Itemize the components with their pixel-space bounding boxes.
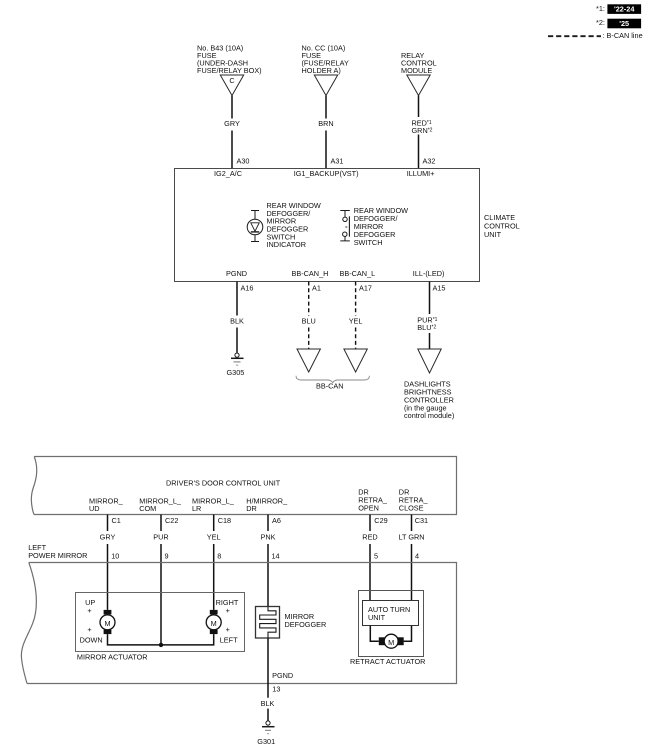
svg-text:RED: RED: [362, 533, 377, 542]
svg-text:BLK: BLK: [261, 699, 275, 708]
svg-text:*2:: *2:: [596, 18, 605, 27]
legend B-CAN line key: [548, 31, 643, 40]
svg-text:C22: C22: [165, 516, 178, 525]
wire BLU A1 (B-CAN): [302, 282, 316, 350]
fuse No. CC (10A) label: [302, 44, 349, 76]
svg-text:UD: UD: [89, 504, 100, 513]
svg-text:BLK: BLK: [230, 317, 244, 326]
svg-text:A6: A6: [272, 516, 281, 525]
pin C29 DR RETRA_OPEN: [358, 488, 388, 525]
wire GRY fuse B43 to A30: [224, 96, 249, 169]
svg-text:13: 13: [272, 685, 280, 694]
svg-text:+: +: [226, 625, 230, 634]
climate control unit box: [175, 169, 520, 282]
svg-text:+: +: [226, 606, 230, 615]
svg-text:UNIT: UNIT: [484, 230, 502, 239]
wire GRY C1 to pin 10: [100, 515, 116, 610]
svg-text:BB-CAN_H: BB-CAN_H: [292, 269, 329, 278]
svg-text:ILLUMI+: ILLUMI+: [407, 169, 435, 178]
svg-text:9: 9: [165, 552, 169, 561]
retract actuator box: [350, 591, 425, 666]
svg-text:GRY: GRY: [100, 533, 116, 542]
motor M (retract): [379, 634, 404, 648]
connector triangle (dashlights): [418, 349, 441, 373]
svg-text:*1:: *1:: [596, 4, 605, 13]
pin 13 PGND: [272, 671, 293, 694]
connector triangle (relay control module): [407, 75, 430, 96]
svg-text:COM: COM: [139, 504, 156, 513]
fuse No. B43 (10A) label: [197, 44, 262, 76]
svg-text:10: 10: [111, 552, 119, 561]
svg-text:POWER MIRROR: POWER MIRROR: [28, 551, 87, 560]
svg-text:BB-CAN_L: BB-CAN_L: [340, 269, 376, 278]
svg-text:RETRACT ACTUATOR: RETRACT ACTUATOR: [350, 657, 425, 666]
svg-text:MIRROR ACTUATOR: MIRROR ACTUATOR: [77, 652, 148, 661]
svg-text:MODULE: MODULE: [401, 66, 432, 75]
svg-text:FUSE/RELAY BOX): FUSE/RELAY BOX): [197, 66, 262, 75]
svg-text:LR: LR: [192, 504, 201, 513]
svg-text:IG1_BACKUP(VST): IG1_BACKUP(VST): [294, 169, 359, 178]
svg-text:A17: A17: [359, 284, 372, 293]
svg-text:C31: C31: [415, 516, 428, 525]
svg-text:C18: C18: [218, 516, 231, 525]
svg-text:YEL: YEL: [349, 317, 363, 326]
wire RED C29 to pin 5: [362, 515, 377, 601]
pin C1 MIRROR_UD: [89, 497, 124, 525]
motor M (up/down): [80, 598, 115, 644]
svg-text:5: 5: [374, 552, 378, 561]
wire PUR/BLU A15: [417, 282, 437, 350]
connector triangle (fuse CC): [314, 75, 337, 96]
mirror defogger element: [256, 607, 327, 639]
svg-text:ILL-(LED): ILL-(LED): [413, 269, 445, 278]
svg-text:G301: G301: [257, 737, 275, 746]
svg-text:DRIVER'S DOOR CONTROL UNIT: DRIVER'S DOOR CONTROL UNIT: [166, 479, 281, 488]
legend note *1 '22-24: [596, 4, 641, 14]
svg-text:DOWN: DOWN: [80, 635, 103, 644]
svg-text:M: M: [388, 638, 394, 647]
svg-text:14: 14: [272, 552, 280, 561]
svg-text:A31: A31: [331, 156, 344, 165]
svg-text:8: 8: [217, 552, 221, 561]
left power mirror box: [21, 543, 456, 683]
wire auto turn unit to motor: [370, 626, 411, 641]
svg-text:OPEN: OPEN: [358, 503, 379, 512]
svg-text:YEL: YEL: [207, 533, 221, 542]
wire PNK A6 to pin 14: [260, 515, 275, 607]
svg-text:: B-CAN line: : B-CAN line: [603, 31, 643, 40]
mirror actuator box: [76, 593, 245, 662]
svg-text:+: +: [87, 606, 91, 615]
svg-text:C1: C1: [112, 516, 121, 525]
svg-text:DR: DR: [246, 504, 257, 513]
motor M (right/left): [206, 598, 239, 644]
svg-text:CLOSE: CLOSE: [399, 503, 424, 512]
driver's door control unit box: [31, 457, 456, 515]
svg-text:A30: A30: [237, 156, 250, 165]
svg-text:C: C: [229, 76, 234, 85]
svg-text:HOLDER A): HOLDER A): [302, 66, 341, 75]
wire BLK pin 13 to ground: [261, 638, 275, 721]
svg-text:DEFOGGER: DEFOGGER: [285, 620, 327, 629]
relay control module label: [401, 51, 437, 75]
wire LT GRN C31 to pin 4: [398, 515, 424, 601]
switch symbol (rear window defogger/mirror defogger switch): [340, 211, 350, 241]
svg-text:BLU: BLU: [302, 317, 316, 326]
connector triangle B-CAN (BLU): [297, 349, 320, 372]
svg-text:A15: A15: [433, 284, 446, 293]
svg-text:UNIT: UNIT: [368, 613, 386, 622]
svg-text:'25: '25: [619, 19, 629, 28]
svg-text:SWITCH: SWITCH: [354, 238, 383, 247]
wire BRN fuse CC to A31: [318, 96, 343, 169]
svg-text:A1: A1: [312, 284, 321, 293]
indicator LED symbol (rear window defogger/mirror defogger switch indicator): [247, 211, 263, 242]
svg-text:LT GRN: LT GRN: [398, 533, 424, 542]
svg-text:IG2_A/C: IG2_A/C: [214, 169, 242, 178]
switch label: [354, 206, 408, 247]
svg-text:C29: C29: [374, 516, 387, 525]
svg-text:BRN: BRN: [318, 119, 333, 128]
svg-text:PGND: PGND: [226, 269, 247, 278]
wire RED/GRN to A32: [412, 96, 436, 169]
pin C22 MIRROR_L_COM: [139, 497, 182, 525]
svg-text:A32: A32: [423, 156, 436, 165]
svg-text:PUR: PUR: [153, 533, 168, 542]
connector triangle C (fuse B43): [220, 75, 243, 96]
svg-text:'22-24: '22-24: [614, 5, 635, 14]
svg-text:G305: G305: [227, 368, 245, 377]
brace BB-CAN: [296, 376, 369, 391]
wire motor commons: [108, 634, 214, 645]
svg-text:BB-CAN: BB-CAN: [316, 382, 344, 391]
ground G301: [257, 721, 275, 746]
legend note *2 '25: [596, 18, 641, 28]
svg-text:control module): control module): [404, 411, 454, 420]
auto turn unit box: [363, 601, 419, 626]
svg-text:PNK: PNK: [260, 533, 275, 542]
ground G305: [227, 353, 245, 377]
wire YEL C18 to pin 8: [207, 515, 221, 610]
svg-text:GRY: GRY: [224, 119, 240, 128]
svg-text:+: +: [87, 625, 91, 634]
svg-text:PGND: PGND: [272, 671, 293, 680]
connector triangle B-CAN (YEL): [344, 349, 367, 372]
dashlights brightness controller label: [404, 380, 454, 420]
svg-text:M: M: [104, 619, 110, 628]
wire PUR C22 to pin 9: [153, 515, 168, 645]
svg-text:A16: A16: [241, 284, 254, 293]
svg-text:M: M: [211, 619, 217, 628]
pin A6 H/MIRROR_DR: [246, 497, 288, 525]
svg-text:LEFT: LEFT: [220, 635, 238, 644]
svg-text:4: 4: [415, 552, 419, 561]
pin C31 DR RETRA_CLOSE: [399, 488, 429, 525]
wire YEL A17 (B-CAN): [349, 282, 363, 350]
svg-text:INDICATOR: INDICATOR: [267, 240, 306, 249]
wire BLK A16 to ground: [230, 282, 244, 353]
junction dot: [159, 643, 163, 647]
indicator label: [267, 201, 321, 249]
pin C18 MIRROR_L_LR: [192, 497, 235, 525]
